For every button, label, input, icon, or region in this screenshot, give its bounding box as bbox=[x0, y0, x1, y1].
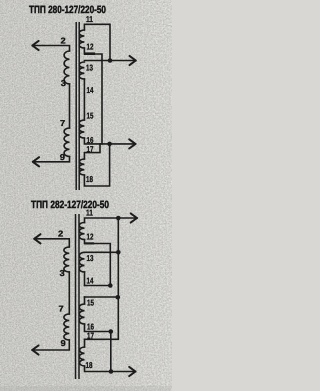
junction pin 11 / bus (sch2) bbox=[116, 216, 121, 221]
svg-text:17: 17 bbox=[87, 330, 94, 340]
wire pin 11 output line (sch2) bbox=[85, 218, 138, 223]
svg-text:17: 17 bbox=[87, 144, 94, 154]
wire pin 14 stub (sch2) bbox=[85, 285, 111, 287]
scan shading at bottom edge bbox=[0, 386, 172, 391]
winding II section 15-16 (sch2) bbox=[79, 304, 84, 324]
svg-text:2: 2 bbox=[58, 229, 63, 239]
wire 3 to 7 (sch2) bbox=[68, 272, 70, 314]
svg-text:13: 13 bbox=[87, 253, 94, 263]
junction pin 15 / bus (sch2) bbox=[116, 295, 121, 300]
wire coil3 top lead (sch2) bbox=[84, 297, 86, 304]
svg-text:3: 3 bbox=[60, 268, 65, 278]
wire pin 2 lead (sch2) bbox=[34, 239, 69, 247]
wire pin 17 stub bbox=[84, 144, 100, 159]
arrow output terminal at node B bbox=[129, 139, 135, 148]
wire link pin 16 to pin 18 (sch2) bbox=[110, 332, 112, 372]
wire jumper pin 11 to node A bbox=[84, 24, 110, 58]
arrow terminal at pin 2 (127/220V input) bbox=[32, 41, 38, 50]
svg-text:18: 18 bbox=[86, 174, 93, 184]
ink blob on pin 12 stub bbox=[84, 52, 95, 55]
wire 3 to 7 bbox=[69, 84, 71, 128]
wire node A output line bbox=[84, 60, 135, 62]
arrow terminal at pin 2 (sch2) bbox=[34, 234, 40, 243]
wire pin 9 lead bbox=[33, 157, 70, 162]
junction pin 14 / link (sch2) bbox=[108, 283, 113, 288]
svg-text:ТПП 282-127/220-50: ТПП 282-127/220-50 bbox=[31, 199, 109, 211]
wire bus node A to node B bbox=[101, 61, 103, 144]
svg-text:15: 15 bbox=[87, 111, 94, 121]
svg-text:11: 11 bbox=[86, 208, 93, 218]
arrow output terminal at pin 18 (sch2) bbox=[129, 367, 135, 376]
svg-text:12: 12 bbox=[87, 231, 94, 241]
wire pin 15 stub (sch2) bbox=[85, 296, 118, 298]
svg-text:13: 13 bbox=[86, 63, 93, 73]
svg-text:2: 2 bbox=[61, 36, 66, 46]
wire pin 12 stub bbox=[84, 48, 102, 61]
transformer core sch2 (right bar) bbox=[78, 214, 80, 379]
arrow output terminal at node A bbox=[130, 56, 136, 65]
svg-text:15: 15 bbox=[87, 297, 94, 307]
winding II section 17-18 bbox=[79, 159, 84, 175]
transformer core (left bar) bbox=[75, 22, 77, 190]
junction pin 18 / link (sch2) bbox=[109, 369, 114, 374]
wire pin 9 lead (sch2) bbox=[32, 340, 69, 350]
svg-text:ТПП 280-127/220-50: ТПП 280-127/220-50 bbox=[29, 4, 106, 16]
ink blob on pin 12 stub (sch2) bbox=[84, 242, 94, 244]
svg-text:7: 7 bbox=[60, 118, 65, 128]
node B junction (pins 16-17-18) bbox=[107, 142, 112, 147]
svg-text:9: 9 bbox=[61, 338, 66, 348]
wire link pin 12 to pin 14 (sch2) bbox=[85, 240, 111, 286]
winding I section 7-9 (sch2) bbox=[64, 314, 69, 340]
arrow terminal at pin 9 bbox=[33, 157, 39, 166]
junction pin 13 / bus (sch2) bbox=[116, 250, 121, 255]
winding I section 2-3 (sch2) bbox=[64, 247, 69, 272]
svg-text:3: 3 bbox=[61, 78, 66, 88]
svg-text:18: 18 bbox=[86, 360, 93, 370]
arrow terminal at pin 9 (sch2) bbox=[32, 345, 38, 354]
transformer core (right bar) bbox=[78, 22, 80, 190]
svg-text:14: 14 bbox=[87, 276, 94, 286]
winding II section 13-14 (sch2) bbox=[79, 252, 84, 272]
winding II section 15-16 bbox=[79, 120, 84, 138]
svg-text:12: 12 bbox=[87, 42, 94, 52]
wire pin 18 jumper to node B bbox=[84, 144, 109, 186]
winding II section 11-12 (sch2) bbox=[79, 223, 84, 240]
winding II section 17-18 (sch2) bbox=[79, 347, 84, 366]
wire node B output line bbox=[84, 138, 135, 144]
wire pin 2 lead bbox=[32, 46, 69, 52]
wire pin 16 stub (sch2) bbox=[85, 324, 111, 332]
winding I (primary) section 7-9 bbox=[64, 128, 69, 157]
svg-text:9: 9 bbox=[60, 152, 65, 162]
wire pin 18 output line (sch2) bbox=[85, 366, 136, 372]
wire pin 13 stub (sch2) bbox=[85, 251, 119, 253]
node A junction (pins 11-12-13) bbox=[108, 58, 113, 63]
transformer core sch2 (left bar) bbox=[75, 214, 77, 379]
wire bus odd pins + pin 17 stub (sch2) bbox=[85, 218, 119, 339]
svg-text:14: 14 bbox=[87, 85, 94, 95]
arrow output terminal at pin 11 (sch2) bbox=[131, 213, 137, 222]
wire 14 to 15 bbox=[83, 79, 85, 120]
junction pin 16 / link (sch2) bbox=[109, 329, 114, 334]
wire coil4 top lead (sch2) bbox=[84, 339, 86, 347]
svg-text:11: 11 bbox=[86, 14, 93, 24]
wire coil lead to pin 14 (sch2) bbox=[84, 272, 86, 286]
svg-text:7: 7 bbox=[59, 304, 64, 314]
winding II section 13-14 bbox=[79, 62, 84, 79]
winding I (primary) section 2-3 bbox=[64, 51, 69, 84]
winding II section 11-12 bbox=[79, 30, 84, 48]
